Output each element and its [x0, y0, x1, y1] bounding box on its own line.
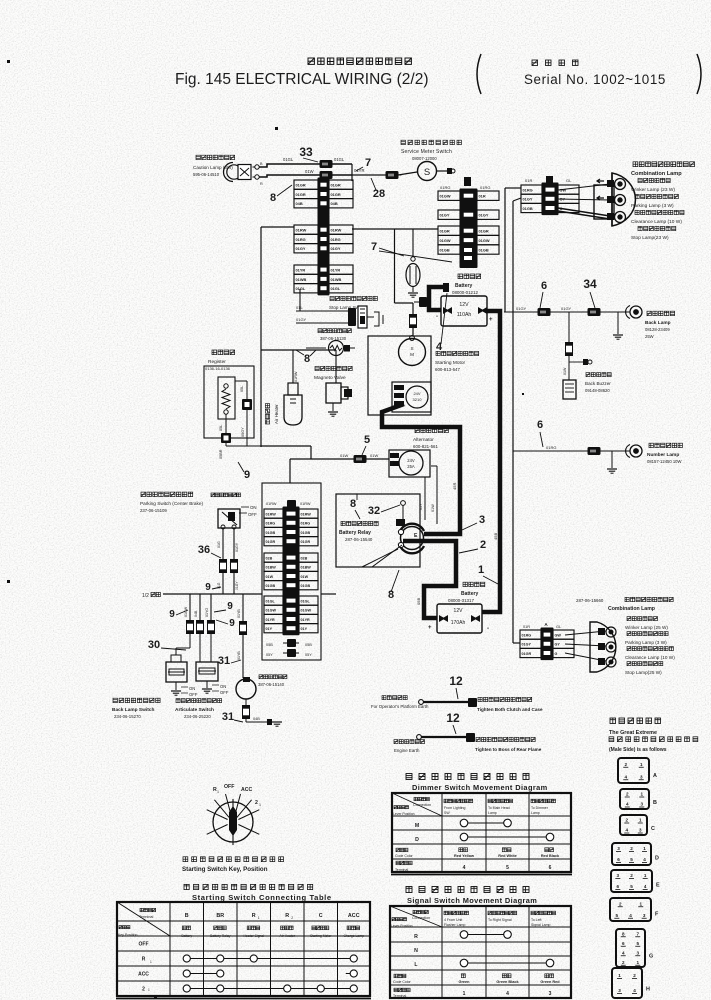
svg-text:01RG: 01RG [480, 185, 490, 190]
svg-text:01G: 01G [217, 541, 221, 548]
svg-text:01GW: 01GW [440, 238, 451, 243]
battery relay label [341, 521, 378, 525]
svg-text:Code Color: Code Color [393, 980, 412, 984]
svg-text:01GY: 01GY [523, 197, 533, 202]
svg-text:To Main Head: To Main Head [488, 806, 510, 810]
wire 01GR pin row [264, 537, 283, 546]
svg-text:01GY: 01GY [331, 246, 341, 251]
back buzzer branch [568, 312, 570, 342]
svg-text:4: 4 [633, 988, 636, 993]
fuse on 01G [220, 560, 227, 573]
svg-text:R: R [285, 913, 289, 919]
connector A [618, 758, 649, 783]
svg-text:Tighten to Boss of Rear Flame: Tighten to Boss of Rear Flame [475, 747, 542, 752]
svg-text:5: 5 [506, 865, 509, 871]
operator platform earth label [382, 696, 407, 700]
svg-text:OFF: OFF [224, 784, 234, 790]
svg-text:B: B [653, 800, 657, 806]
svg-text:234-06-25220: 234-06-25220 [184, 714, 211, 719]
svg-text:Flasher Lamp: Flasher Lamp [444, 923, 465, 927]
svg-text:01GL: 01GL [301, 599, 311, 603]
svg-text:6: 6 [537, 419, 543, 431]
svg-text:ON: ON [189, 686, 195, 691]
svg-text:08000-01212: 08000-01212 [452, 290, 478, 295]
svg-text:Signal Lamp: Signal Lamp [531, 923, 551, 927]
svg-text:OFF: OFF [248, 512, 257, 517]
signal header diagonal [390, 906, 442, 927]
svg-text:SW: SW [444, 811, 450, 815]
dimmer header diagonal [392, 793, 442, 816]
svg-text:6: 6 [549, 865, 552, 871]
svg-text:1: 1 [636, 960, 639, 965]
svg-text:01RG: 01RG [266, 522, 276, 526]
CN2 top mark [464, 177, 471, 186]
svg-text:-: - [436, 314, 438, 320]
back buzzer label [586, 373, 611, 377]
svg-text:8: 8 [270, 192, 276, 204]
svg-text:For Operator's Platform Earth: For Operator's Platform Earth [371, 704, 429, 709]
svg-text:Air Heater: Air Heater [280, 934, 296, 938]
clearance lamp bulb [558, 208, 610, 216]
svg-text:C: C [319, 913, 323, 919]
wire 01GW pin row [438, 235, 460, 244]
svg-text:8: 8 [622, 931, 625, 936]
svg-text:04B: 04B [253, 717, 260, 721]
svg-text:01R: 01R [479, 194, 486, 199]
svg-text:Starting Switch Key, Position: Starting Switch Key, Position [182, 866, 268, 873]
svg-text:1: 1 [150, 960, 152, 964]
wire resistor bottom [226, 445, 261, 447]
wire 01GY pin row [521, 194, 542, 203]
wire 01GR pin row [438, 226, 460, 235]
wire 01W pin row [264, 571, 283, 580]
svg-text:2: 2 [622, 960, 625, 965]
battery cable minus stub [429, 287, 444, 310]
svg-text:595-06-14510: 595-06-14510 [193, 172, 220, 177]
svg-text:01W: 01W [266, 575, 274, 579]
wire 01W top [259, 175, 352, 177]
svg-text:01GY: 01GY [296, 246, 306, 251]
svg-text:Red White: Red White [498, 854, 517, 858]
svg-text:Clearance Lamp (10 W): Clearance Lamp (10 W) [625, 655, 675, 660]
fuse 04B [197, 621, 204, 634]
connector on alternator wire [354, 455, 367, 463]
svg-text:Combination Lamp: Combination Lamp [608, 606, 655, 612]
connector 35 on battery minus [419, 297, 427, 307]
svg-text:05BR: 05BR [219, 449, 223, 459]
rear combination lamp labels [627, 617, 658, 621]
wire 01GL pin row [264, 596, 283, 605]
svg-text:01GR: 01GR [301, 540, 311, 544]
svg-text:GL: GL [556, 625, 561, 629]
scan specks [7, 60, 10, 63]
battery BT1 12V 110Ah [441, 296, 487, 326]
svg-text:8: 8 [304, 353, 310, 365]
svg-text:02B: 02B [266, 556, 273, 560]
parking switch label [141, 492, 193, 497]
svg-text:31: 31 [218, 655, 230, 667]
connector G [616, 929, 645, 967]
svg-text:GL: GL [566, 178, 572, 183]
svg-text:GY: GY [555, 643, 561, 647]
wire y350 to heater/valve [261, 349, 336, 351]
svg-text:1: 1 [640, 762, 643, 767]
svg-text:Battery: Battery [455, 283, 472, 289]
svg-text:9: 9 [169, 609, 175, 620]
svg-text:2: 2 [630, 873, 633, 878]
svg-text:01RW: 01RW [301, 512, 312, 516]
svg-text:01RG: 01RG [331, 237, 341, 242]
svg-text:01W: 01W [340, 453, 348, 458]
svg-text:4: 4 [624, 774, 627, 779]
svg-text:08000-31317: 08000-31317 [448, 598, 474, 603]
svg-text:OFF: OFF [189, 692, 198, 697]
back lamp label [647, 311, 675, 315]
svg-text:Stop Lamp(25 W): Stop Lamp(25 W) [625, 670, 662, 675]
svg-text:4: 4 [629, 913, 632, 918]
wire 05GY down [246, 410, 248, 446]
svg-text:01GW: 01GW [301, 609, 312, 613]
table header diagonal [117, 902, 170, 936]
fuse on 01GY [231, 560, 238, 573]
svg-text:05Y: 05Y [419, 503, 423, 510]
svg-text:Connection: Connection [413, 803, 431, 807]
svg-text:5: 5 [636, 941, 639, 946]
title serial block [532, 60, 578, 66]
svg-text:The Great Extreme: The Great Extreme [609, 730, 657, 736]
key dial knob [229, 806, 237, 836]
svg-text:01GL: 01GL [334, 157, 345, 162]
dimmer column heads [444, 799, 473, 803]
svg-text:01GL: 01GL [266, 599, 276, 603]
svg-text:ACC: ACC [348, 913, 360, 919]
starting switch connecting table title [184, 884, 313, 889]
svg-text:01GB: 01GB [523, 206, 533, 211]
svg-text:01RG: 01RG [296, 237, 306, 242]
svg-text:01RW: 01RW [266, 512, 277, 516]
rear clearance bulb [565, 653, 606, 661]
back lamp L2 [626, 306, 630, 319]
svg-text:02B: 02B [301, 556, 308, 560]
thermo unit (water temp gauge) [306, 347, 326, 349]
connector bar CN3 [542, 183, 559, 216]
svg-text:5: 5 [630, 884, 633, 889]
svg-text:1: 1 [463, 991, 466, 997]
svg-text:To Left: To Left [531, 918, 542, 922]
svg-text:BR: BR [216, 913, 224, 919]
svg-text:M: M [415, 823, 419, 829]
stop lamp switch pin [367, 316, 374, 318]
front combination lamp housing [612, 173, 635, 226]
svg-text:Engine Earth: Engine Earth [394, 748, 420, 753]
svg-text:237-06-15109: 237-06-15109 [140, 508, 167, 513]
svg-text:Tighten Both Clutch and Case: Tighten Both Clutch and Case [477, 707, 543, 712]
svg-text:04B: 04B [296, 201, 303, 206]
svg-text:Fig. 145 ELECTRICAL WIRING (2/: Fig. 145 ELECTRICAL WIRING (2/2) [175, 71, 429, 88]
back buzzer pin [569, 361, 583, 363]
svg-text:12: 12 [446, 711, 460, 725]
starting motor M1 [399, 339, 426, 366]
svg-text:01WB: 01WB [296, 277, 307, 282]
svg-text:01GB: 01GB [301, 531, 311, 535]
wire left loop vertical [260, 227, 262, 447]
relay lower leads [372, 545, 402, 567]
svg-text:387-06-15130: 387-06-15130 [320, 336, 347, 341]
wire 01GB pin row [438, 245, 460, 254]
svg-text:287-06-15540: 287-06-15540 [345, 537, 373, 542]
wire 04B to ground [246, 721, 267, 723]
wire 01GY pin row [520, 639, 541, 648]
wire 01GW pin row [264, 605, 283, 614]
svg-text:01YB: 01YB [237, 609, 241, 618]
svg-text:01RG: 01RG [523, 187, 533, 192]
svg-text:6: 6 [617, 884, 620, 889]
svg-text:6: 6 [617, 857, 620, 862]
svg-text:7: 7 [365, 157, 371, 169]
battery relay K1 [400, 524, 424, 531]
svg-text:3: 3 [640, 802, 643, 807]
svg-text:01GR: 01GR [440, 229, 450, 234]
back lamp switch SW3 [166, 662, 187, 682]
horn unit label [259, 675, 287, 679]
svg-text:24V: 24V [407, 458, 415, 463]
engine earth strap [417, 735, 422, 740]
number lamp L3 [626, 445, 630, 458]
parking switch SW2 [218, 509, 240, 528]
svg-text:05L: 05L [240, 386, 244, 392]
svg-text:S: S [410, 346, 413, 351]
svg-text:01W: 01W [563, 367, 567, 375]
svg-text:110Ah: 110Ah [457, 312, 472, 318]
signal switch table [390, 906, 571, 998]
wire 01RG pin row [294, 234, 318, 243]
svg-text:01RW: 01RW [296, 228, 307, 233]
magneto valve V1 [335, 350, 337, 383]
svg-text:Battery Relay: Battery Relay [339, 530, 371, 536]
battery BT1 label [458, 274, 481, 279]
svg-text:01WB: 01WB [331, 277, 342, 282]
wire 04B pin row [294, 199, 318, 208]
resistor label [212, 350, 235, 355]
caution lamp [224, 163, 234, 182]
wire 01GW branch [189, 594, 191, 620]
svg-text:34: 34 [583, 277, 597, 291]
svg-text:2: 2 [255, 800, 258, 806]
svg-text:01GL: 01GL [296, 286, 306, 291]
connector bar CN1 [318, 178, 330, 296]
starting switch key position label [183, 857, 284, 862]
back lamp switch label [113, 698, 160, 702]
svg-text:Dimmer Switch Movement Diagram: Dimmer Switch Movement Diagram [412, 783, 548, 792]
svg-text:Connection: Connection [412, 916, 430, 920]
svg-text:2: 2 [291, 916, 293, 920]
svg-text:From Lighting: From Lighting [444, 806, 465, 810]
wire 01YG branch [210, 594, 212, 620]
signal column heads [444, 911, 469, 915]
wire into CN5 [513, 642, 520, 644]
svg-text:1: 1 [639, 901, 642, 906]
svg-text:12V: 12V [459, 302, 469, 308]
wire 01W alternator [290, 458, 389, 460]
connector D [612, 843, 651, 865]
svg-text:B: B [185, 913, 189, 919]
svg-text:Code Color: Code Color [395, 854, 414, 858]
front combination lamp labels [633, 162, 695, 167]
svg-text:Red Black: Red Black [541, 854, 560, 858]
signal switch title [406, 887, 529, 893]
battery BT1 terminals [443, 307, 449, 314]
battery relay box [336, 494, 420, 567]
connector F [610, 898, 651, 921]
connector on resistor wire [242, 399, 252, 410]
svg-text:Parking Lamp (3 W): Parking Lamp (3 W) [631, 203, 674, 209]
svg-text:01RW: 01RW [266, 502, 277, 506]
svg-text:01W: 01W [301, 575, 309, 579]
wire 01YR pin row [264, 614, 283, 623]
wire 01RG pin row [520, 630, 541, 639]
svg-text:1: 1 [258, 916, 260, 920]
signal terminal row [394, 988, 410, 992]
fuse on starting motor feed [410, 315, 417, 328]
svg-text:R: R [260, 182, 263, 186]
service switch terminal [437, 170, 447, 172]
rear parking bulb [565, 644, 606, 646]
svg-text:2: 2 [630, 846, 633, 851]
wire vertical x513 [512, 201, 514, 643]
svg-text:01GW: 01GW [479, 238, 490, 243]
articulate switch SW4 [196, 662, 218, 681]
ground number lamp [611, 451, 613, 468]
svg-text:01GB: 01GB [479, 247, 489, 252]
svg-text:Lamp: Lamp [488, 811, 497, 815]
svg-text:05Y: 05Y [305, 653, 312, 657]
back lamp switch ground [175, 682, 177, 690]
svg-text:Lever Position: Lever Position [393, 812, 415, 816]
svg-text:3: 3 [549, 991, 552, 997]
svg-text:05GY: 05GY [241, 427, 245, 437]
svg-text:R: R [142, 957, 146, 963]
svg-text:387-06-15140: 387-06-15140 [258, 682, 285, 687]
svg-text:5: 5 [364, 434, 370, 446]
svg-text:01YR: 01YR [331, 268, 341, 273]
wire 01Y pin row [264, 624, 283, 633]
svg-text:D: D [415, 837, 419, 843]
battery BT2 terminals [439, 615, 445, 622]
table row ACC contacts [187, 973, 221, 975]
svg-text:5: 5 [616, 913, 619, 918]
stop lamp switch label [330, 296, 377, 300]
svg-text:9: 9 [227, 601, 233, 612]
svg-text:04B: 04B [194, 610, 198, 617]
svg-text:01YG: 01YG [205, 608, 209, 617]
svg-text:01GB: 01GB [301, 584, 311, 588]
svg-text:3: 3 [617, 873, 620, 878]
operator platform earth strap [419, 700, 424, 705]
svg-text:7: 7 [636, 931, 639, 936]
fuel gauge unit [412, 229, 414, 257]
svg-text:05B: 05B [305, 643, 312, 647]
svg-text:-: - [487, 626, 489, 632]
svg-text:Combination Lamp: Combination Lamp [631, 171, 682, 177]
svg-text:Winker Lamp (25 W): Winker Lamp (25 W) [625, 625, 668, 630]
svg-text:600-813-647: 600-813-647 [435, 367, 460, 372]
wire 02B pin row [264, 553, 283, 562]
starting switch connecting table [117, 902, 370, 996]
svg-text:9: 9 [205, 582, 211, 593]
svg-text:2: 2 [624, 762, 627, 767]
key dial slot line [232, 799, 234, 845]
connector C [620, 815, 647, 835]
fuse 01YG [208, 621, 215, 634]
svg-text:Register: Register [208, 359, 226, 365]
svg-text:E: E [414, 533, 418, 539]
svg-text:05B: 05B [266, 643, 273, 647]
horn lower lead [245, 699, 247, 706]
svg-text:4: 4 [463, 865, 466, 871]
wire 01RW pin row [294, 225, 318, 234]
svg-text:01RG: 01RG [522, 633, 532, 637]
wire 01GY pin row [294, 244, 318, 253]
svg-text:287-06-15660: 287-06-15660 [576, 598, 604, 603]
title parentheses [477, 54, 481, 94]
svg-text:1/2: 1/2 [142, 593, 149, 599]
svg-text:01BW: 01BW [301, 566, 312, 570]
svg-text:2: 2 [626, 792, 629, 797]
svg-text:3: 3 [617, 846, 620, 851]
svg-text:09148-08620: 09148-08620 [585, 388, 610, 393]
service meter switch S1 [418, 162, 437, 181]
svg-text:1: 1 [643, 846, 646, 851]
winker lamp bulb [558, 184, 610, 190]
svg-text:2: 2 [619, 901, 622, 906]
wire 01BW pin row [264, 562, 283, 571]
svg-text:01GB: 01GB [266, 531, 276, 535]
svg-text:01GY: 01GY [440, 213, 450, 218]
svg-text:4 From Unit: 4 From Unit [444, 918, 462, 922]
thick cable 2 (relay to battery) [403, 541, 456, 618]
wire 01GR pin row [294, 180, 318, 189]
wire 01GL top [259, 164, 352, 167]
svg-text:To Dimmer: To Dimmer [531, 806, 549, 810]
svg-text:01GR: 01GR [522, 652, 532, 656]
svg-text:Lever Position: Lever Position [391, 924, 413, 928]
svg-text:01Y: 01Y [266, 627, 273, 631]
svg-text:G: G [555, 652, 558, 656]
svg-text:01GR: 01GR [331, 192, 341, 197]
svg-text:01RW: 01RW [294, 371, 298, 382]
svg-text:01GR: 01GR [479, 229, 489, 234]
resistor R1 element [224, 384, 228, 388]
svg-text:5: 5 [630, 857, 633, 862]
svg-text:Clearance Lamp (10 W): Clearance Lamp (10 W) [631, 219, 682, 225]
alternator label [415, 428, 448, 432]
connector on 01W wire [320, 171, 333, 179]
svg-text:12V: 12V [454, 608, 464, 614]
svg-text:L: L [391, 454, 393, 458]
svg-text:6: 6 [541, 280, 547, 292]
svg-text:01R: 01R [523, 625, 530, 629]
starting motor label [436, 351, 479, 355]
dimmer terminal row [396, 861, 412, 865]
svg-text:Alternator: Alternator [413, 437, 434, 443]
wire vertical x505 [504, 188, 506, 312]
rear winker bulb [565, 631, 606, 635]
svg-text:ON: ON [220, 684, 226, 689]
wire 01RG number lamp [513, 450, 630, 452]
svg-text:1: 1 [640, 792, 643, 797]
connector stack CN4 frame [262, 483, 321, 660]
wire 01GB pin row [521, 203, 542, 212]
